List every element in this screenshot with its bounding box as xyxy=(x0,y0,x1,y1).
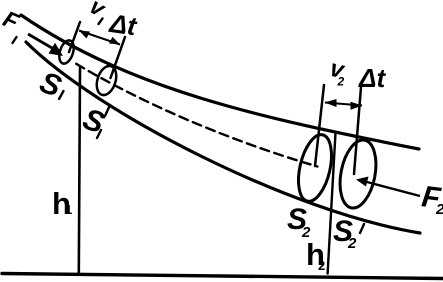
svg-text:Δt: Δt xyxy=(107,8,139,42)
svg-text:S: S xyxy=(35,66,65,104)
svg-text:Δt: Δt xyxy=(358,63,386,93)
svg-text:2: 2 xyxy=(337,75,345,89)
svg-text:S: S xyxy=(78,102,108,140)
svg-text:1: 1 xyxy=(65,202,72,217)
svg-text:2: 2 xyxy=(318,258,325,273)
svg-text:2: 2 xyxy=(347,235,357,252)
svg-text:F: F xyxy=(0,5,24,35)
svg-text:2: 2 xyxy=(435,201,443,218)
svg-text:v: v xyxy=(85,0,110,22)
